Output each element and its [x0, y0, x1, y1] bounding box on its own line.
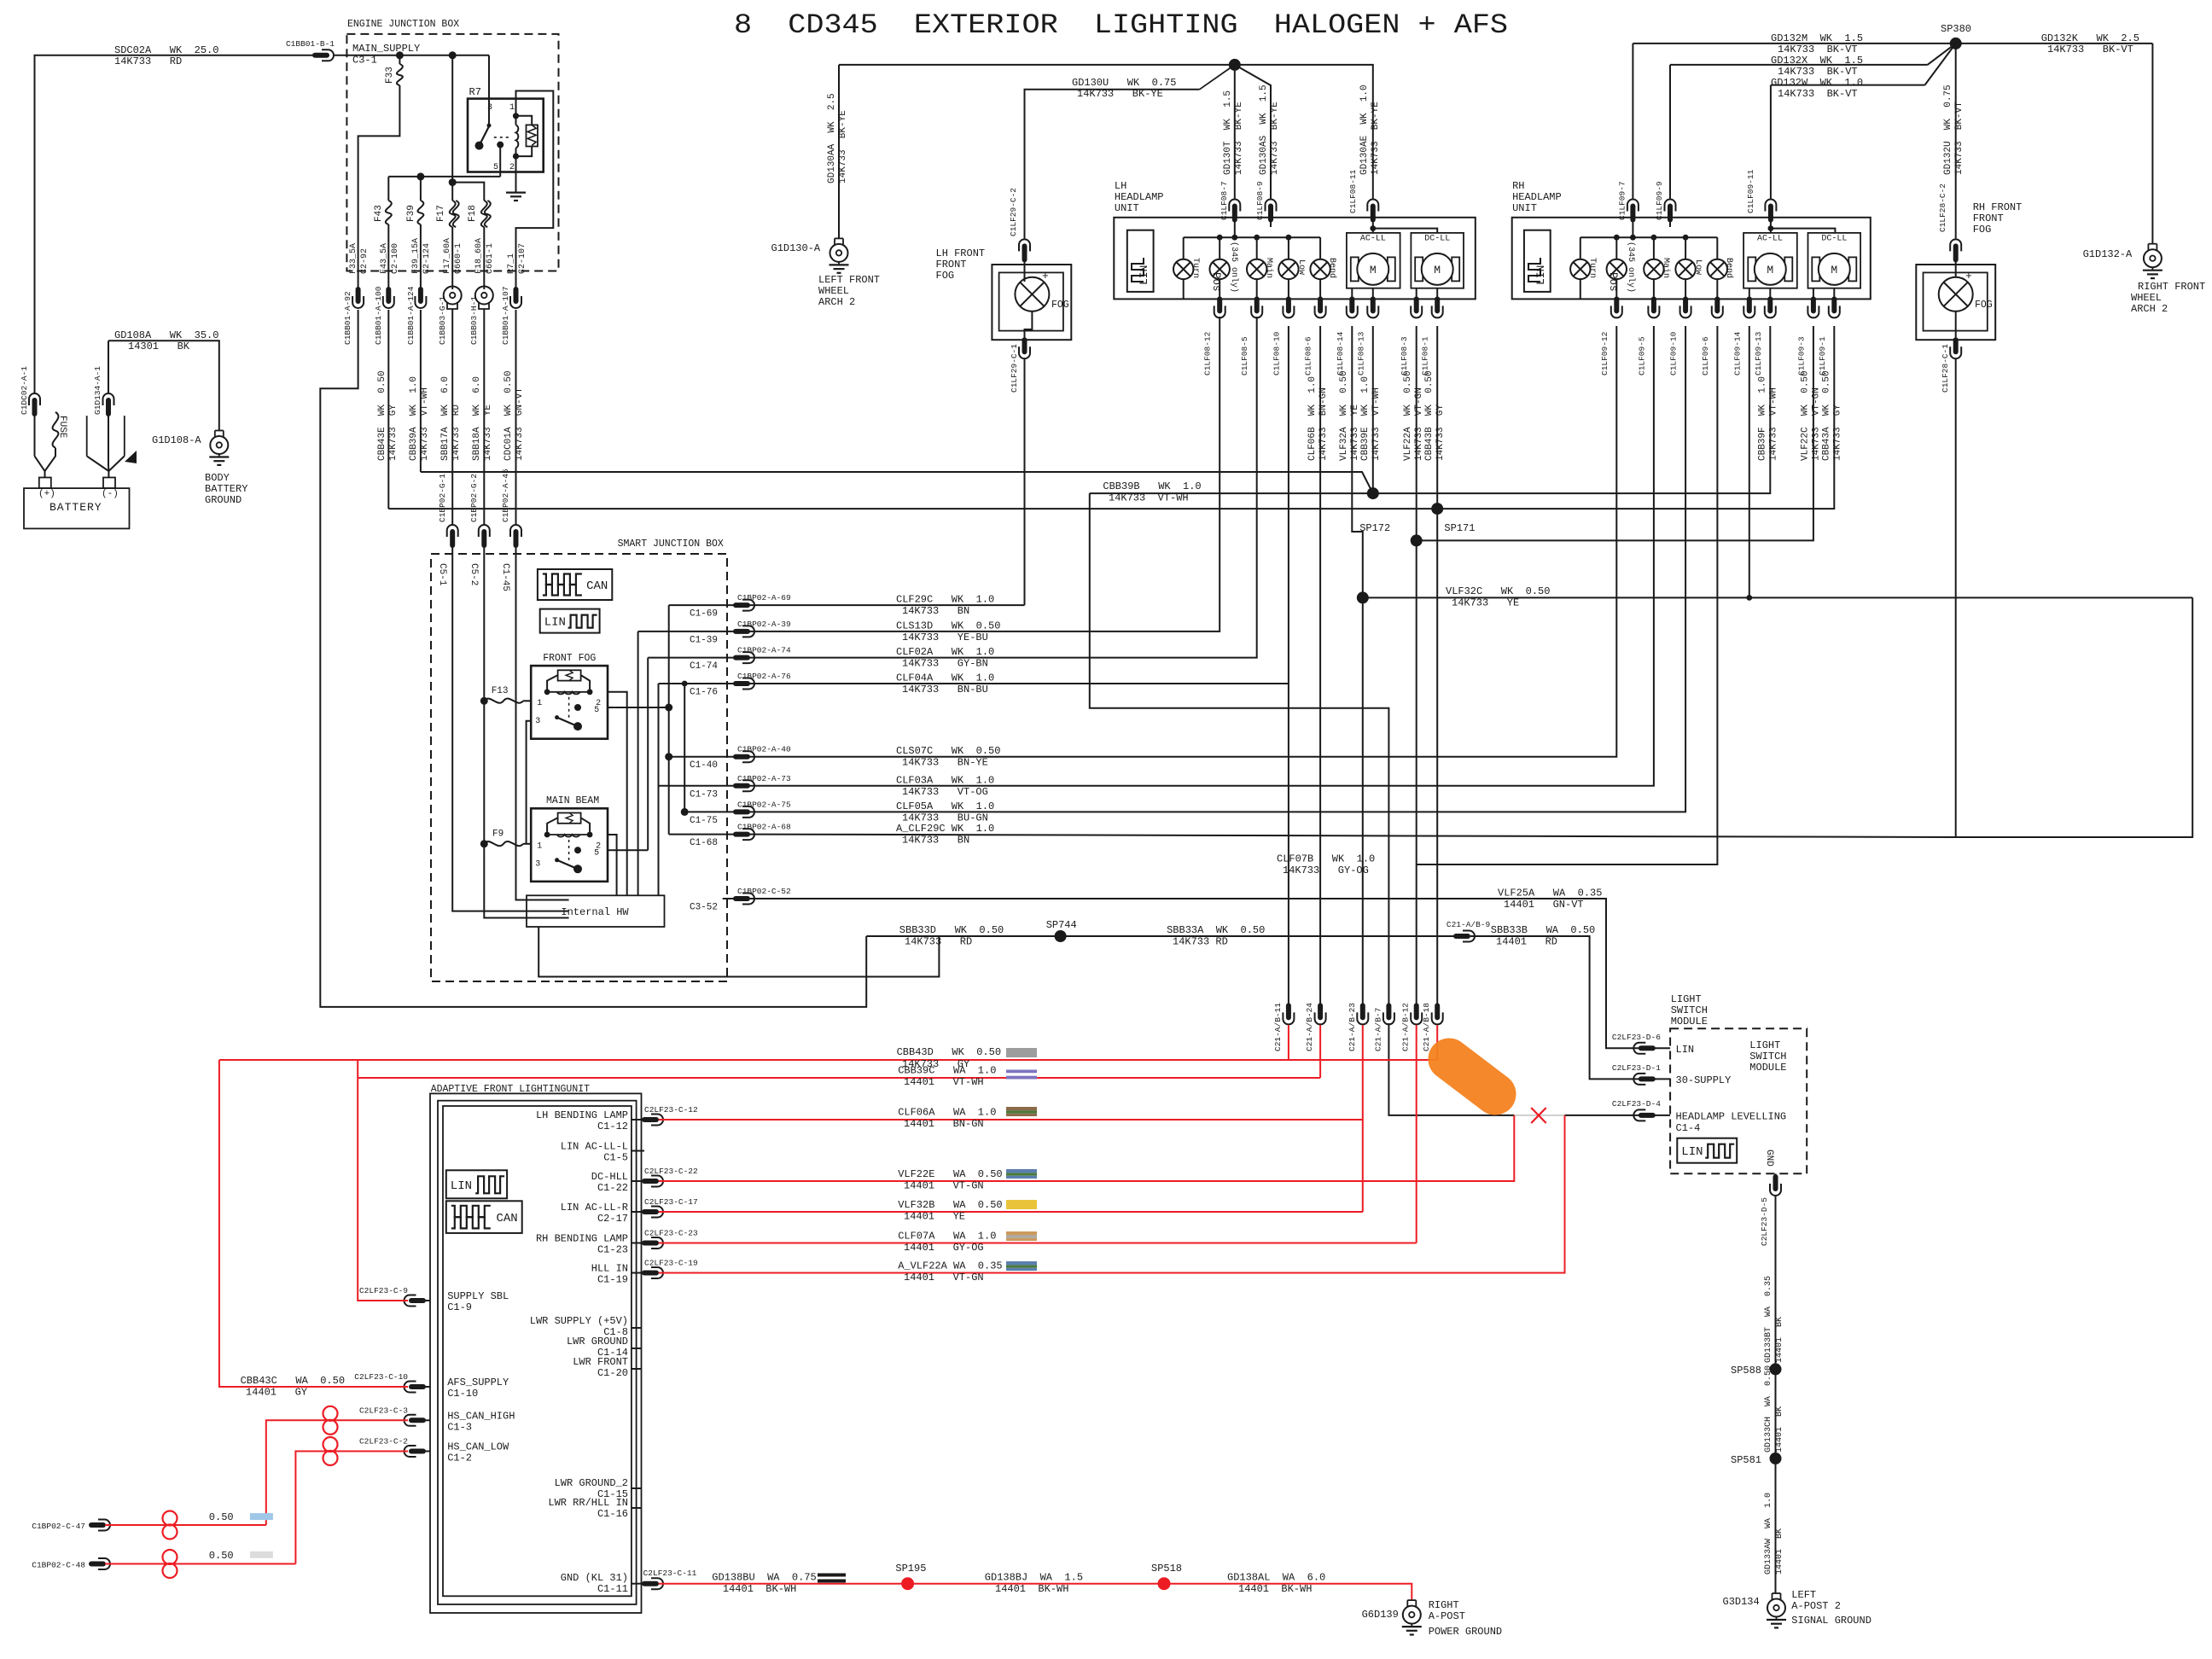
red wire C21-A/B-12 tail — [1416, 1025, 1417, 1243]
svg-text:GD138BU WA 0.75: GD138BU WA 0.75 — [712, 1572, 816, 1584]
svg-text:C2LF23-C-23: C2LF23-C-23 — [644, 1229, 698, 1238]
svg-text:14401 BK-WH: 14401 BK-WH — [723, 1583, 796, 1595]
swatch CBB43D — [1006, 1048, 1037, 1057]
svg-text:C1BP02-G-1: C1BP02-G-1 — [438, 474, 447, 522]
battery terminal - — [103, 478, 115, 489]
svg-text:C1BP02-A-40: C1BP02-A-40 — [737, 745, 791, 754]
wire LIN stub — [1653, 1047, 1670, 1049]
svg-text:CLS07C WK 0.50: CLS07C WK 0.50 — [896, 745, 1000, 757]
motor box LH DC-LL — [1411, 233, 1464, 288]
svg-text:FOG: FOG — [1975, 300, 1993, 311]
wire F17 out — [451, 227, 453, 289]
label LIGHT SWITCH MODULE inside — [1749, 1039, 1786, 1074]
node main supply junction 2 — [449, 51, 457, 59]
label MAIN_SUPPLY C3-1 — [352, 43, 420, 67]
twisted pair symbol CAN upper — [323, 1406, 338, 1435]
LIN symbol LSM — [1677, 1138, 1737, 1163]
svg-text:LEFT FRONT: LEFT FRONT — [818, 274, 880, 286]
svg-text:RH BENDING LAMP: RH BENDING LAMP — [536, 1233, 628, 1245]
wire SDC02A from battery + to EJB — [35, 55, 314, 393]
svg-text:LIN: LIN — [1681, 1145, 1703, 1159]
wire GD132U — [1955, 44, 1957, 239]
wire GD108A battery - to body ground — [108, 341, 219, 477]
svg-text:C1LF09-12: C1LF09-12 — [1600, 331, 1610, 375]
svg-text:VLF25A WA 0.35: VLF25A WA 0.35 — [1498, 888, 1602, 899]
svg-text:C1BB03-H-1: C1BB03-H-1 — [469, 296, 479, 345]
wire VLF25A to LIN pin — [1639, 1047, 1642, 1049]
svg-text:C1BP02-A-69: C1BP02-A-69 — [737, 593, 791, 602]
svg-text:1: 1 — [537, 841, 542, 851]
svg-text:POWER GROUND: POWER GROUND — [1429, 1626, 1502, 1638]
svg-text:14K733 RD: 14K733 RD — [1173, 936, 1228, 948]
svg-text:GD132X WK 1.5: GD132X WK 1.5 — [1771, 55, 1863, 67]
CAN symbol SJB — [538, 569, 612, 600]
unit LH headlamp box — [1114, 218, 1476, 300]
wire SJB row C1-39 inside — [638, 631, 736, 632]
connector C21-A/B-18 — [1432, 1005, 1443, 1024]
svg-text:WHEEL: WHEEL — [818, 285, 849, 297]
wire RH bend drop — [1716, 237, 1718, 259]
red wire C-47 row — [105, 1524, 266, 1526]
AFL box inner — [443, 1106, 632, 1596]
lamp RH Pos — [1607, 242, 1636, 293]
svg-text:C1-73: C1-73 — [690, 789, 718, 800]
wire F18 out — [483, 227, 485, 289]
highlighter mark — [1449, 1059, 1495, 1094]
label VLF22E — [898, 1168, 1002, 1192]
svg-text:C1BP02-A-39: C1BP02-A-39 — [737, 620, 791, 629]
wire CBB39B row — [1090, 326, 1771, 493]
svg-text:F43: F43 — [374, 205, 384, 222]
wire main supply bus — [335, 55, 489, 125]
light switch module dashed box — [1670, 1028, 1807, 1173]
label C1-76 — [690, 688, 718, 698]
red wire C21-A/B-23 tail — [1362, 1025, 1364, 1212]
motor box LH AC-LL — [1347, 233, 1400, 288]
svg-text:MODULE: MODULE — [1671, 1016, 1708, 1027]
label GD130T wire — [1223, 90, 1244, 175]
motor LH DC-LL — [1415, 253, 1459, 285]
svg-text:(+): (+) — [38, 489, 55, 499]
svg-text:C660-1: C660-1 — [454, 243, 463, 274]
wire GD132M row — [1633, 43, 1955, 44]
connector C1LF08-14 — [1347, 299, 1358, 317]
relay MAIN BEAM — [480, 808, 608, 882]
label C1LF28-C-1 — [1941, 344, 1950, 393]
wire LEVELLING stub — [1653, 1115, 1670, 1116]
svg-text:C1-69: C1-69 — [690, 609, 718, 620]
svg-text:M: M — [1434, 264, 1441, 276]
red wire CLF07A row — [659, 1243, 1417, 1244]
engine junction box dashed outline — [346, 34, 558, 271]
label CDC01A wire — [504, 370, 525, 461]
connector C1LF09-12 — [1611, 299, 1622, 317]
svg-text:GD133BT WA 0.35: GD133BT WA 0.35 — [1764, 1276, 1773, 1363]
svg-text:GD132W WK 1.0: GD132W WK 1.0 — [1771, 77, 1863, 89]
label SMART JUNCTION BOX — [618, 538, 724, 550]
label GD108A — [114, 329, 218, 352]
svg-text:14301 BK: 14301 BK — [128, 341, 190, 352]
label LIN pin — [1676, 1044, 1695, 1056]
svg-text:UNIT: UNIT — [1512, 202, 1537, 214]
LIN symbol AFL — [446, 1170, 507, 1198]
svg-text:GD130AS WK 1.5: GD130AS WK 1.5 — [1259, 84, 1269, 175]
wire GD132X drop — [1669, 65, 1671, 199]
wire GD130AE into units — [1370, 216, 1437, 233]
svg-text:C1BP02-A-73: C1BP02-A-73 — [737, 774, 791, 783]
label C1BB03-G-1 — [438, 296, 447, 345]
svg-text:SWITCH: SWITCH — [1671, 1004, 1708, 1016]
swatch row48 — [250, 1551, 273, 1558]
svg-text:SBB17A WK 6.0: SBB17A WK 6.0 — [440, 376, 451, 461]
label wire CLF02A — [896, 646, 994, 670]
wire LH lamp to connector at 1608.8 — [1372, 288, 1374, 300]
connector C2LF23-D-5 — [1770, 1177, 1781, 1196]
wire CLF29C riser to LH fog — [1024, 358, 1026, 605]
svg-text:GND: GND — [1764, 1150, 1774, 1167]
svg-text:C1-39: C1-39 — [690, 635, 718, 645]
connector C21-A/B-9 — [1456, 931, 1475, 942]
svg-text:LIN: LIN — [451, 1179, 472, 1193]
svg-text:LWR GROUND_2: LWR GROUND_2 — [555, 1477, 628, 1489]
label CLF06B wire — [1307, 376, 1329, 461]
label HEADLAMP LEVELLING pin — [1676, 1111, 1787, 1135]
AFL pin LIN AC-LL-R C2-17 — [561, 1197, 698, 1225]
svg-text:C1BB03-G-1: C1BB03-G-1 — [438, 296, 447, 345]
svg-text:14K733 YE-BU: 14K733 YE-BU — [902, 632, 988, 643]
label VLF32A wire — [1339, 370, 1360, 461]
wire C5-2 column — [484, 542, 568, 918]
ground G3D134 — [1767, 1593, 1786, 1627]
label F18_60A C661-1 — [474, 238, 495, 274]
lamp LH Main — [1247, 258, 1274, 279]
svg-text:C1-20: C1-20 — [597, 1367, 628, 1379]
connector C1BB01-A-107 — [510, 289, 521, 308]
motor box RH DC-LL — [1808, 233, 1861, 288]
svg-text:LWR FRONT: LWR FRONT — [573, 1356, 628, 1368]
label LIGHT SWITCH MODULE outside — [1671, 993, 1708, 1027]
lamp LH Bend — [1310, 258, 1337, 279]
svg-text:LWR SUPPLY (+5V): LWR SUPPLY (+5V) — [530, 1315, 628, 1327]
label C21-A/B-24 — [1305, 1003, 1314, 1051]
connector C1LF08-12 — [1214, 299, 1225, 317]
node GD130 splice — [1229, 59, 1241, 71]
svg-text:SP380: SP380 — [1941, 23, 1971, 35]
AFL pin LWR GROUND C1-14 — [567, 1336, 642, 1359]
svg-text:C1LF08-11: C1LF08-11 — [1348, 169, 1358, 213]
svg-text:A_VLF22A WA 0.35: A_VLF22A WA 0.35 — [898, 1260, 1002, 1272]
label CBB43D — [897, 1046, 1001, 1070]
svg-text:5: 5 — [493, 163, 498, 172]
node SP380 — [1941, 23, 1971, 49]
svg-text:14K733 BK-YE: 14K733 BK-YE — [1234, 102, 1244, 175]
lamp RH Bend — [1708, 258, 1734, 279]
svg-text:14K733 GY-OG: 14K733 GY-OG — [1283, 864, 1369, 876]
connector C1DC02-A-1 — [29, 393, 40, 414]
twisted pair symbol 47 — [163, 1511, 178, 1540]
node SP588 — [1731, 1363, 1782, 1377]
wire FF pin3 to MB — [527, 721, 532, 844]
svg-text:14K733 BN-YE: 14K733 BN-YE — [902, 757, 988, 769]
label wire CLF29C — [896, 594, 994, 618]
svg-text:14401 VT-GN: 14401 VT-GN — [904, 1272, 984, 1284]
svg-text:AC-LL: AC-LL — [1757, 235, 1783, 244]
ground G1D108-A body battery ground — [209, 431, 229, 465]
svg-text:SMART JUNCTION BOX: SMART JUNCTION BOX — [618, 538, 724, 550]
swatch A_VLF22A — [1006, 1261, 1037, 1271]
fuse FUSE — [53, 412, 67, 448]
svg-text:F18_60A: F18_60A — [474, 238, 484, 274]
wire MB pin2 to internal HW — [608, 835, 617, 895]
svg-text:GD130AA WK 2.5: GD130AA WK 2.5 — [827, 93, 837, 183]
connector C1LF09-6 — [1712, 299, 1723, 317]
svg-text:CBB43E WK 0.50: CBB43E WK 0.50 — [377, 370, 387, 461]
label LEFT FRONT WHEEL ARCH 2 — [818, 274, 880, 308]
svg-text:C1BP02-G-2: C1BP02-G-2 — [469, 474, 479, 522]
svg-text:WHEEL: WHEEL — [2131, 292, 2162, 304]
label GD132W — [1771, 77, 1863, 100]
twisted pair symbol 48 — [163, 1550, 178, 1578]
svg-text:ARCH 2: ARCH 2 — [818, 296, 855, 308]
svg-text:C1-10: C1-10 — [447, 1388, 478, 1400]
battery clamp marks — [87, 416, 125, 471]
wire A_CLF29C row — [749, 597, 2192, 837]
svg-text:1: 1 — [537, 699, 542, 708]
svg-text:CLF06A WA 1.0: CLF06A WA 1.0 — [898, 1107, 996, 1119]
svg-text:C1-22: C1-22 — [597, 1182, 628, 1194]
svg-text:14K733 BK-YE: 14K733 BK-YE — [1270, 102, 1280, 175]
wire SJB row C1-73 inside — [659, 785, 736, 787]
wire GD130AS drop — [1235, 65, 1271, 199]
fuse F18 — [468, 201, 491, 227]
label RIGHT A-POST — [1429, 1599, 1465, 1622]
battery - clamp arrow — [125, 451, 137, 463]
battery BATTERY box — [24, 488, 130, 528]
label C1LF08-5 — [1240, 336, 1249, 375]
LIN symbol SJB — [540, 609, 600, 633]
connector C1LF09-9 — [1655, 181, 1675, 220]
svg-text:14401 BK-WH: 14401 BK-WH — [995, 1583, 1068, 1595]
wire GD132X row — [1670, 44, 1956, 65]
swatch CBB39C — [1006, 1070, 1037, 1080]
label LH HEADLAMP UNIT — [1115, 180, 1164, 214]
svg-text:C1-12: C1-12 — [597, 1121, 628, 1132]
svg-text:FUSE: FUSE — [57, 416, 67, 439]
svg-text:(-): (-) — [102, 489, 119, 499]
svg-text:C2LF23-C-9: C2LF23-C-9 — [359, 1286, 408, 1295]
wire GD132K to right wheel arch — [1956, 44, 2153, 244]
wire SBB33D row — [866, 935, 1456, 937]
ring terminal C1BB03-G-1 — [444, 287, 462, 310]
svg-text:C1-3: C1-3 — [447, 1421, 472, 1433]
label F39_15A C2-124 — [411, 238, 432, 274]
twisted pair symbol CAN lower — [323, 1437, 338, 1465]
label C1BB01-A-92 — [343, 291, 352, 345]
wire GD133 chain — [1775, 1195, 1777, 1593]
ground G6D139 — [1402, 1600, 1422, 1634]
label GD133BT wire — [1764, 1276, 1784, 1363]
svg-text:C1LF28-C-1: C1LF28-C-1 — [1941, 344, 1950, 393]
connector C2LF23-D-4 — [1633, 1109, 1652, 1121]
CAN symbol AFL — [446, 1201, 522, 1233]
svg-text:LEFT: LEFT — [1791, 1589, 1816, 1601]
svg-text:G6D139: G6D139 — [1362, 1609, 1399, 1621]
connector G1D134-A-1 — [103, 393, 114, 414]
svg-text:+: + — [1042, 270, 1049, 282]
label F17_60A C660-1 — [443, 238, 463, 274]
svg-text:C1LF08-6: C1LF08-6 — [1304, 336, 1313, 375]
svg-text:LIN AC-LL-R: LIN AC-LL-R — [561, 1202, 628, 1214]
connector C1BP02-A-75 — [736, 806, 754, 818]
connector C1BP02-C-47 — [91, 1520, 110, 1531]
svg-text:C1BB01-A-100: C1BB01-A-100 — [374, 286, 383, 345]
label FRONT FOG — [543, 653, 596, 664]
label G1D108-A — [152, 434, 201, 446]
svg-text:C1-40: C1-40 — [690, 760, 718, 771]
connector C1LF08-11 — [1348, 169, 1378, 219]
wire CDC01A down to C1-45 — [515, 310, 517, 524]
label Internal HW — [561, 906, 629, 918]
label MAIN BEAM — [546, 795, 599, 806]
wire top feed bus GD130 — [839, 64, 1235, 66]
wire LH lamp bus — [1184, 216, 1320, 237]
svg-text:C1LF09-11: C1LF09-11 — [1746, 169, 1755, 213]
wire VLF32A column — [1352, 326, 1363, 1005]
relay FRONT FOG — [480, 666, 608, 739]
svg-text:SBB18A WK 6.0: SBB18A WK 6.0 — [472, 376, 482, 461]
label wire CLF04A — [896, 672, 994, 696]
svg-text:C1-76: C1-76 — [690, 688, 718, 698]
lamp LH Turn — [1173, 258, 1200, 279]
label GND pin — [1764, 1150, 1774, 1167]
svg-text:F18: F18 — [468, 205, 478, 222]
lamp unit RH front fog box — [1916, 265, 1995, 340]
node SP581 — [1731, 1452, 1782, 1466]
label C21-A/B-7 — [1373, 1008, 1382, 1051]
label GD132X — [1771, 55, 1863, 78]
label F33_5A C2-92 — [349, 243, 370, 274]
svg-text:14401 GY: 14401 GY — [246, 1387, 307, 1399]
svg-text:14401 GY-OG: 14401 GY-OG — [904, 1242, 984, 1254]
label CLF06A — [898, 1107, 996, 1131]
red wire supply SBL drop — [358, 1060, 408, 1301]
wire RH AC-LL-left VLF32 column — [1749, 326, 1750, 597]
node SP172 — [1359, 487, 1390, 534]
label CBB39A wire — [409, 376, 430, 461]
connector C1BP02-A-40 — [736, 751, 754, 762]
wire RH turn drop — [1580, 237, 1581, 259]
wire GD130U — [1025, 65, 1235, 239]
svg-text:CBB43B WK 0.50: CBB43B WK 0.50 — [1424, 370, 1435, 461]
connector C1LF28-C-1 — [1950, 340, 1961, 358]
label GD132U wire — [1943, 84, 1965, 175]
svg-text:14K733 BK-YE: 14K733 BK-YE — [1077, 88, 1163, 100]
svg-text:CLF04A WK 1.0: CLF04A WK 1.0 — [896, 672, 994, 684]
label G1D130-A — [771, 242, 821, 254]
svg-text:14401 BN-GN: 14401 BN-GN — [904, 1118, 984, 1130]
wire RH pos drop — [1615, 237, 1617, 259]
label C2LF23-D-5 — [1760, 1197, 1769, 1246]
svg-text:G1D132-A: G1D132-A — [2083, 248, 2133, 260]
wire LH lamp to connector at 1684.2 — [1436, 288, 1438, 300]
label wire CLS07C — [896, 745, 1000, 769]
svg-text:C21-A/B-18: C21-A/B-18 — [1422, 1003, 1431, 1051]
svg-text:14401 BK-WH: 14401 BK-WH — [1238, 1583, 1312, 1595]
label SBB33D — [899, 924, 1004, 948]
label C1LF08-10 — [1272, 331, 1281, 375]
connector C1BB01-A-100 — [383, 289, 394, 308]
svg-text:Turn: Turn — [1587, 258, 1597, 278]
svg-text:GD132M WK 1.5: GD132M WK 1.5 — [1771, 32, 1863, 44]
wire headlamp levelling row to connector — [1565, 1115, 1639, 1116]
label LEFT A-POST 2 — [1791, 1589, 1841, 1612]
label C5-1 — [437, 563, 447, 586]
label C2LF23-D-6 — [1612, 1033, 1661, 1042]
node SP171 — [1431, 503, 1475, 534]
label GD130AE wire — [1359, 84, 1381, 175]
svg-text:VLF32A WK 0.50: VLF32A WK 0.50 — [1339, 370, 1349, 461]
svg-text:SP588: SP588 — [1731, 1365, 1761, 1377]
fuse F33 — [385, 64, 403, 85]
svg-text:BATTERY: BATTERY — [49, 501, 102, 514]
svg-text:UNIT: UNIT — [1115, 202, 1139, 214]
label ENGINE JUNCTION BOX — [347, 19, 459, 30]
label C1BB01-A-100 — [374, 286, 383, 345]
wire LH turn drop — [1183, 237, 1185, 259]
label C1BP02-A-74 — [737, 646, 791, 655]
wire battery + lead — [35, 410, 56, 478]
svg-text:GD132U WK 0.75: GD132U WK 0.75 — [1943, 84, 1953, 175]
connector C1BB01-B-1 — [315, 49, 334, 61]
label CBB39B — [1103, 480, 1201, 504]
AFL box outer — [430, 1093, 642, 1613]
svg-text:+: + — [1965, 270, 1972, 282]
swatch CLF07A — [1006, 1231, 1037, 1241]
connector C2LF23-D-6 — [1633, 1043, 1652, 1054]
svg-text:C1LF08-9: C1LF08-9 — [1255, 181, 1265, 220]
wire SJB row C1-75 inside — [684, 811, 736, 812]
svg-text:3: 3 — [487, 103, 492, 113]
svg-text:SP172: SP172 — [1359, 522, 1390, 534]
connector C1LF08-3 — [1411, 299, 1422, 317]
svg-text:C21-A/B-7: C21-A/B-7 — [1373, 1008, 1382, 1051]
wire CBB43E down to SP171 row — [387, 310, 389, 509]
svg-text:HLL IN: HLL IN — [591, 1263, 628, 1275]
svg-text:R7_1: R7_1 — [507, 253, 516, 274]
svg-text:C1LF08-1: C1LF08-1 — [1421, 336, 1430, 375]
svg-text:14401 BK: 14401 BK — [1775, 1406, 1784, 1452]
connector C2LF23-D-1 — [1633, 1074, 1652, 1085]
svg-text:Internal HW: Internal HW — [561, 906, 629, 918]
svg-text:SP744: SP744 — [1046, 919, 1077, 931]
wire RH lamp to connector at 1975.1 — [1685, 279, 1686, 299]
motor box RH AC-LL — [1743, 233, 1797, 288]
label GD138BU — [712, 1572, 816, 1596]
svg-text:3: 3 — [535, 717, 540, 726]
svg-text:F43_5A: F43_5A — [380, 243, 389, 274]
svg-text:C1BP02-C-47: C1BP02-C-47 — [32, 1522, 85, 1531]
svg-text:VLF32C WK 0.50: VLF32C WK 0.50 — [1446, 585, 1550, 597]
wire FF pin5 bus — [608, 605, 672, 835]
svg-text:C1BP02-C-52: C1BP02-C-52 — [737, 887, 791, 896]
wire internal HW to SBB33D loop — [538, 927, 939, 977]
label CBB43B wire — [1424, 370, 1446, 461]
relay R7 switch — [475, 124, 511, 150]
svg-text:GD130T WK 1.5: GD130T WK 1.5 — [1223, 90, 1233, 175]
svg-text:HEADLAMP: HEADLAMP — [1115, 191, 1164, 203]
AFL pin LWR RR/HLL IN C1-16 — [548, 1497, 641, 1520]
connector C1LF29-C-2 — [1019, 239, 1030, 259]
